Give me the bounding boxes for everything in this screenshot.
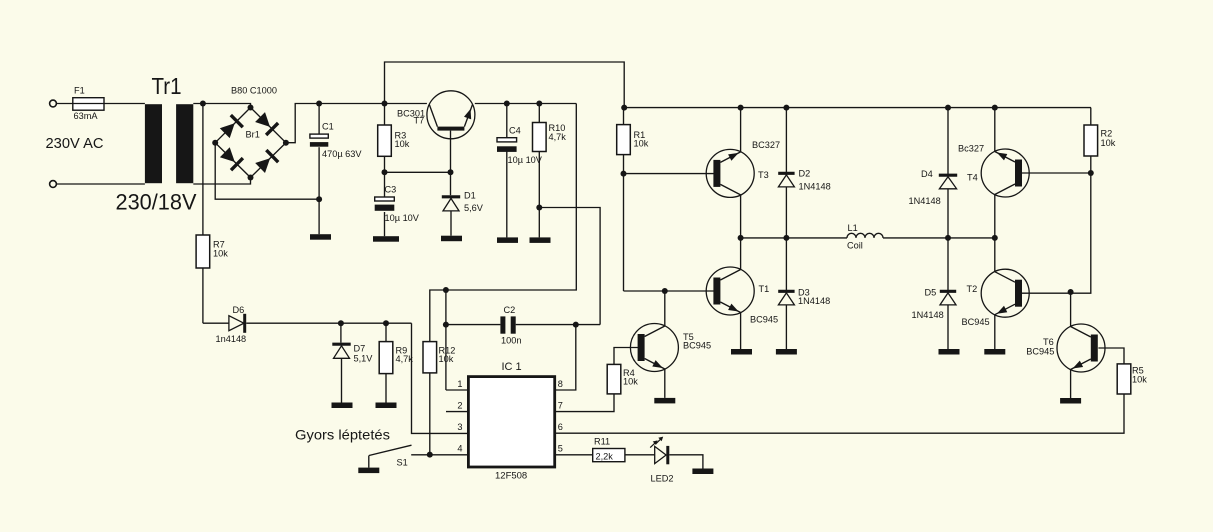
svg-text:R2: R2 (1101, 129, 1113, 139)
wire D2 top (785, 108, 787, 175)
svg-text:100n: 100n (501, 336, 521, 346)
svg-text:C1: C1 (322, 122, 334, 132)
wire pin4 to switch (411, 454, 468, 456)
zener diode D1 (442, 197, 460, 211)
node T4 rail junction (992, 105, 998, 111)
wire T2 emitter down (994, 315, 996, 349)
label T6 type BC945 (1026, 347, 1054, 357)
label D7 (354, 344, 366, 354)
wire T6 collector (1070, 292, 1072, 327)
transformer Tr1 primary winding (145, 104, 162, 183)
svg-text:4: 4 (457, 444, 462, 454)
label D7 value (354, 354, 374, 364)
wire T1 base line (624, 290, 714, 292)
wire R1 bottom (623, 155, 625, 291)
label 470µ 63V (322, 149, 362, 159)
label 230V AC (46, 136, 104, 152)
diode D5 (940, 291, 956, 305)
label D4 (921, 169, 933, 179)
label D1 value (464, 203, 484, 213)
label BC301 (397, 109, 425, 119)
bridge diode bottom-right (255, 150, 278, 173)
svg-text:B80 C1000: B80 C1000 (231, 86, 277, 97)
svg-text:F1: F1 (74, 86, 85, 96)
label Tr1 (152, 73, 182, 99)
svg-text:63mA: 63mA (74, 111, 99, 121)
ground D5 (939, 349, 960, 355)
label R10 (549, 123, 567, 142)
pin 2 stub (446, 411, 468, 413)
zener diode D7 (332, 344, 350, 358)
label LED2 (651, 474, 674, 484)
wire LED cathode to ground (669, 455, 703, 469)
ground T5 (654, 398, 675, 404)
svg-text:1n4148: 1n4148 (216, 334, 247, 344)
label L1 (848, 223, 858, 233)
svg-text:T1: T1 (759, 284, 770, 294)
wire C2 right link (516, 324, 600, 326)
svg-text:D5: D5 (925, 288, 937, 298)
wire R4 to T5 base (614, 348, 638, 365)
label T6 (1043, 337, 1054, 347)
ground T2 (984, 349, 1005, 355)
wire fuse to transformer (104, 103, 145, 105)
label B80 C1000 (231, 86, 277, 97)
label C4 value 10µ 10V (508, 155, 543, 165)
wire C4 top (506, 104, 508, 138)
svg-text:D4: D4 (921, 169, 933, 179)
wire center rail left (741, 237, 847, 239)
label 63mA (74, 111, 99, 121)
bridge diode top-right (255, 112, 278, 135)
svg-text:Gyors léptetés: Gyors léptetés (295, 427, 390, 443)
node T3 emitter rail junction (738, 105, 744, 111)
wire T2 base line (1022, 173, 1091, 293)
resistor R4 (607, 364, 621, 394)
wire C2 left link (446, 324, 501, 326)
ground R9 (376, 403, 397, 409)
wire C1 bottom (318, 147, 320, 234)
label T1 (759, 284, 770, 294)
resistor R12 (423, 342, 437, 373)
wire ground link to IC Vss (539, 208, 600, 325)
svg-text:C4: C4 (509, 126, 521, 136)
label T7 (414, 116, 425, 126)
label C3 value 10µ 10V (385, 213, 420, 223)
svg-text:6: 6 (558, 422, 563, 432)
svg-text:8: 8 (558, 379, 563, 389)
label Br1 (246, 130, 260, 140)
svg-text:10k: 10k (395, 139, 410, 149)
resistor R10 (533, 123, 547, 152)
wire switch pole down (368, 456, 370, 468)
svg-text:230V AC: 230V AC (46, 136, 104, 152)
label C1 (322, 122, 334, 132)
wire 5V rail down to R12 (430, 104, 577, 342)
label F1 (74, 86, 85, 96)
wire R7 to D6 (202, 268, 204, 323)
wire C1 top (318, 104, 320, 135)
label D6 (233, 305, 245, 315)
wire D4 top (947, 108, 949, 177)
svg-text:T7: T7 (414, 116, 425, 126)
transistor T7 BC301 (427, 91, 475, 139)
label R7 (213, 240, 228, 259)
node D4 rail junction (945, 105, 951, 111)
resistor R11 horizontal (593, 449, 625, 462)
transformer Tr1 secondary winding (176, 104, 193, 183)
wire R11 to LED (625, 454, 655, 456)
capacitor C4 (497, 138, 517, 152)
svg-text:5,1V: 5,1V (354, 354, 374, 364)
wire T1 emitter down (740, 313, 742, 350)
svg-text:D1: D1 (464, 191, 476, 201)
capacitor C2 (500, 316, 515, 333)
pin 2 number (457, 400, 462, 410)
node R12 pin4 junction (427, 452, 433, 458)
wire R3 to D1 link (385, 171, 451, 173)
wire R9 bottom (385, 374, 387, 403)
svg-text:1N4148: 1N4148 (798, 296, 830, 306)
node D2 rail junction (783, 105, 789, 111)
svg-text:D7: D7 (354, 344, 366, 354)
svg-text:C2: C2 (504, 305, 516, 315)
inductor L1 Coil (847, 233, 883, 238)
wire center rail right (883, 237, 995, 239)
label R9 (396, 346, 414, 365)
svg-text:4,7k: 4,7k (396, 354, 414, 364)
svg-text:5: 5 (558, 444, 563, 454)
svg-text:2: 2 (457, 400, 462, 410)
node D7 junction (338, 320, 344, 326)
pin 1 stub (446, 389, 469, 391)
wire C4 bottom (506, 148, 508, 237)
label D3 (798, 288, 810, 298)
transistor T2 BC945 (981, 269, 1029, 317)
wire T7 base down (450, 131, 452, 173)
wire T2 collector up (994, 238, 996, 272)
svg-text:2,2k: 2,2k (596, 452, 614, 462)
node R9 junction (383, 320, 389, 326)
svg-text:470µ 63V: 470µ 63V (322, 149, 362, 159)
wire top bypass rail (385, 62, 625, 108)
node R3 C3 junction (382, 169, 388, 175)
node: AC terminal top (50, 100, 57, 107)
diode D2 (778, 173, 794, 187)
wire R2 top (1090, 108, 1092, 125)
node pin8 C2 junction (573, 322, 579, 328)
label 12F508 (495, 471, 527, 482)
label R1 (634, 130, 649, 149)
node T3 T1 center junction (738, 235, 744, 241)
label IC 1 (502, 361, 522, 373)
label R5 (1132, 366, 1147, 385)
switch S1 arm (369, 445, 412, 455)
wire T4 emitter up (994, 108, 996, 152)
wire D4 bottom (947, 189, 949, 238)
wire R5 to T6 base (1098, 348, 1124, 364)
pin 1 number (457, 379, 462, 389)
wire regulated rail right of T7 (475, 103, 577, 105)
svg-text:10k: 10k (213, 249, 228, 259)
transistor T4 BC327 (981, 149, 1029, 197)
svg-text:D6: D6 (233, 305, 245, 315)
node bridge top vertex (248, 105, 254, 111)
label D2 value 1N4148 (799, 182, 831, 192)
node C4 rail junction (504, 101, 510, 107)
wire T5 emitter (664, 369, 666, 398)
svg-text:BC945: BC945 (962, 317, 990, 327)
wire T6 emitter (1070, 370, 1072, 399)
node R3 rail junction (382, 101, 388, 107)
capacitor C3 (375, 197, 395, 211)
svg-text:10k: 10k (1101, 138, 1116, 148)
label D3 value 1N4148 (798, 296, 830, 306)
wire D1 bottom (450, 211, 452, 236)
svg-text:C3: C3 (385, 185, 397, 195)
svg-text:10k: 10k (634, 139, 649, 149)
label Coil (847, 241, 863, 251)
svg-text:BC945: BC945 (750, 315, 778, 325)
svg-text:1N4148: 1N4148 (912, 310, 944, 320)
svg-text:1N4148: 1N4148 (799, 182, 831, 192)
svg-text:12F508: 12F508 (495, 471, 527, 482)
LED LED2 (650, 437, 668, 465)
svg-text:IC 1: IC 1 (502, 361, 522, 373)
ground D3 (776, 349, 797, 355)
bridge diode bottom-left (220, 147, 243, 170)
node bridge bottom vertex (248, 175, 254, 181)
wire D5 bottom (947, 305, 949, 349)
svg-text:230/18V: 230/18V (116, 190, 197, 215)
label D5 value 1N4148 (912, 310, 944, 320)
svg-text:Tr1: Tr1 (152, 73, 182, 99)
label D6 value 1n4148 (216, 334, 247, 344)
wire pin7 to R4 (555, 394, 614, 412)
svg-text:BC945: BC945 (683, 341, 711, 351)
label Bc327 for T4 (958, 144, 984, 154)
svg-text:10k: 10k (439, 354, 454, 364)
wire D7 bottom (341, 358, 343, 402)
wire R1 top (623, 108, 625, 125)
pin 7 number (558, 400, 563, 410)
svg-text:R11: R11 (594, 437, 610, 447)
label R11 value 2,2k (596, 452, 614, 462)
svg-text:4,7k: 4,7k (549, 132, 567, 142)
wire secondary top to bridge (193, 104, 250, 108)
label R2 (1101, 129, 1116, 149)
resistor R7 (196, 235, 210, 268)
svg-text:BC327: BC327 (752, 140, 780, 150)
ground T6 (1060, 398, 1081, 404)
pin 3 number (457, 422, 462, 432)
ground S1 (358, 468, 379, 474)
label S1 (397, 458, 408, 468)
resistor R9 (379, 342, 393, 374)
svg-text:1: 1 (457, 379, 462, 389)
svg-text:10k: 10k (623, 377, 638, 387)
svg-text:LED2: LED2 (651, 474, 674, 484)
label T4 (967, 173, 978, 183)
node R10 rail junction (536, 101, 542, 107)
node junction R7 tap (200, 101, 206, 107)
resistor R3 (378, 125, 392, 156)
node pin1 C2 junction (443, 322, 449, 328)
wire R9 top (385, 323, 387, 341)
wire bridge minus output (215, 143, 319, 200)
label D2 (799, 169, 811, 179)
wire bridge plus output (286, 104, 427, 143)
label T3 (758, 170, 769, 180)
label Gyors léptetés (295, 427, 390, 443)
node C1 bottom junction (316, 196, 322, 202)
wire pin6 to R5 (555, 394, 1124, 433)
svg-text:10µ 10V: 10µ 10V (385, 213, 420, 223)
node Vdd pin1 junction (443, 287, 449, 293)
pin 8 number (558, 379, 563, 389)
label R12 (439, 346, 456, 365)
node C1 rail junction (316, 101, 322, 107)
wire T4 collector down (994, 195, 996, 238)
svg-text:T4: T4 (967, 173, 978, 183)
wire D6 output (246, 322, 411, 324)
resistor R2 (1084, 125, 1098, 156)
ground T1 (731, 349, 752, 355)
svg-text:10k: 10k (1132, 375, 1147, 385)
wire D3 top (785, 238, 787, 293)
svg-text:3: 3 (457, 422, 462, 432)
wire R2 bottom (1090, 156, 1092, 173)
pin 6 number (558, 422, 563, 432)
wire R10 top (538, 104, 540, 123)
wire H-bridge top rail (624, 107, 1091, 109)
wire T1 collector up (740, 238, 742, 270)
diode D3 (778, 291, 794, 305)
node bridge left vertex (212, 140, 218, 146)
ground C1 (310, 234, 331, 240)
svg-text:S1: S1 (397, 458, 408, 468)
svg-text:7: 7 (558, 400, 563, 410)
diode D6 (229, 314, 245, 333)
fuse F1 (73, 98, 104, 111)
svg-text:10µ 10V: 10µ 10V (508, 155, 543, 165)
node bridge right vertex (283, 140, 289, 146)
wire T4 base (1022, 172, 1091, 174)
wire D1 top (450, 172, 452, 195)
wire D6 anode (203, 322, 229, 324)
label 100n (501, 336, 521, 346)
node R2 base junction (1088, 170, 1094, 176)
node ground rail junction at R10 (536, 205, 542, 211)
node R1 T3 base junction (621, 171, 627, 177)
node D2 D3 center junction (783, 235, 789, 241)
ground R10 (530, 237, 551, 243)
wire R3 top (384, 104, 386, 126)
label T5 (683, 332, 694, 342)
wire C3 bottom (384, 212, 386, 236)
pin 5 number (558, 444, 563, 454)
svg-text:Br1: Br1 (246, 130, 260, 140)
node T7 base junction (448, 169, 454, 175)
label T2 (967, 284, 978, 294)
node T6 collector junction (1068, 289, 1074, 295)
wire T3 collector down (740, 195, 742, 238)
wire pin8 vertical (555, 325, 576, 390)
wire lower terminal to transformer (56, 183, 144, 185)
svg-text:T6: T6 (1043, 337, 1054, 347)
wire signal to pin3 (412, 323, 469, 433)
label R4 (623, 368, 638, 387)
capacitor C1 (310, 134, 328, 147)
svg-text:L1: L1 (848, 223, 858, 233)
label R3 (395, 131, 410, 150)
pin 4 number (457, 444, 462, 454)
label 230/18V (116, 190, 197, 215)
node T5 collector junction (662, 288, 668, 294)
svg-text:D2: D2 (799, 169, 811, 179)
label D4 value 1N4148 (909, 196, 941, 206)
node D4 D5 center junction (945, 235, 951, 241)
wire T3 emitter up (740, 108, 742, 152)
wire R7 tap down (202, 104, 204, 236)
wire terminal to fuse (56, 103, 72, 105)
svg-text:T3: T3 (758, 170, 769, 180)
wire D5 top (947, 238, 949, 293)
ground D7 (332, 403, 353, 409)
node rail R1 junction (621, 105, 627, 111)
wire R10 bottom (538, 152, 540, 238)
ground C3 (373, 236, 399, 242)
transistor T1 BC945 (706, 267, 754, 315)
node: AC terminal bottom (50, 181, 57, 188)
label C3 (385, 185, 397, 195)
transistor T3 BC327 (706, 149, 754, 197)
wire D7 top (340, 323, 342, 342)
transistor T5 BC945 (630, 324, 678, 372)
label C4 (509, 126, 521, 136)
resistor R5 (1117, 364, 1131, 394)
label C2 (504, 305, 516, 315)
diode D4 (939, 175, 957, 189)
wire T3 base (624, 173, 714, 175)
bridge rectifier Br1 diamond (215, 108, 286, 178)
label R11 (594, 437, 610, 447)
svg-text:BC945: BC945 (1026, 347, 1054, 357)
resistor R1 (617, 125, 631, 155)
wire T5 collector (664, 291, 666, 326)
wire pin5 to R11 (555, 454, 593, 456)
wire pin1 vertical (445, 290, 447, 390)
svg-text:Bc327: Bc327 (958, 144, 984, 154)
label T1 type BC945 (750, 315, 778, 325)
transistor T6 BC945 (1057, 324, 1105, 372)
label T2 type BC945 (962, 317, 990, 327)
wire R3 bottom (384, 156, 386, 197)
svg-text:T2: T2 (967, 284, 978, 294)
svg-text:Coil: Coil (847, 241, 863, 251)
wire R12 bottom (429, 373, 431, 455)
wire secondary bottom to bridge (193, 178, 250, 185)
label T5 type BC945 (683, 341, 711, 351)
svg-text:5,6V: 5,6V (464, 203, 484, 213)
ground D1 (441, 236, 462, 242)
node T4 T2 center junction (992, 235, 998, 241)
IC U1 12F508 box (468, 377, 554, 467)
bridge diode top-left (220, 115, 243, 138)
wire D2 bottom (785, 187, 787, 238)
svg-text:1N4148: 1N4148 (909, 196, 941, 206)
ground LED2 (692, 469, 713, 475)
